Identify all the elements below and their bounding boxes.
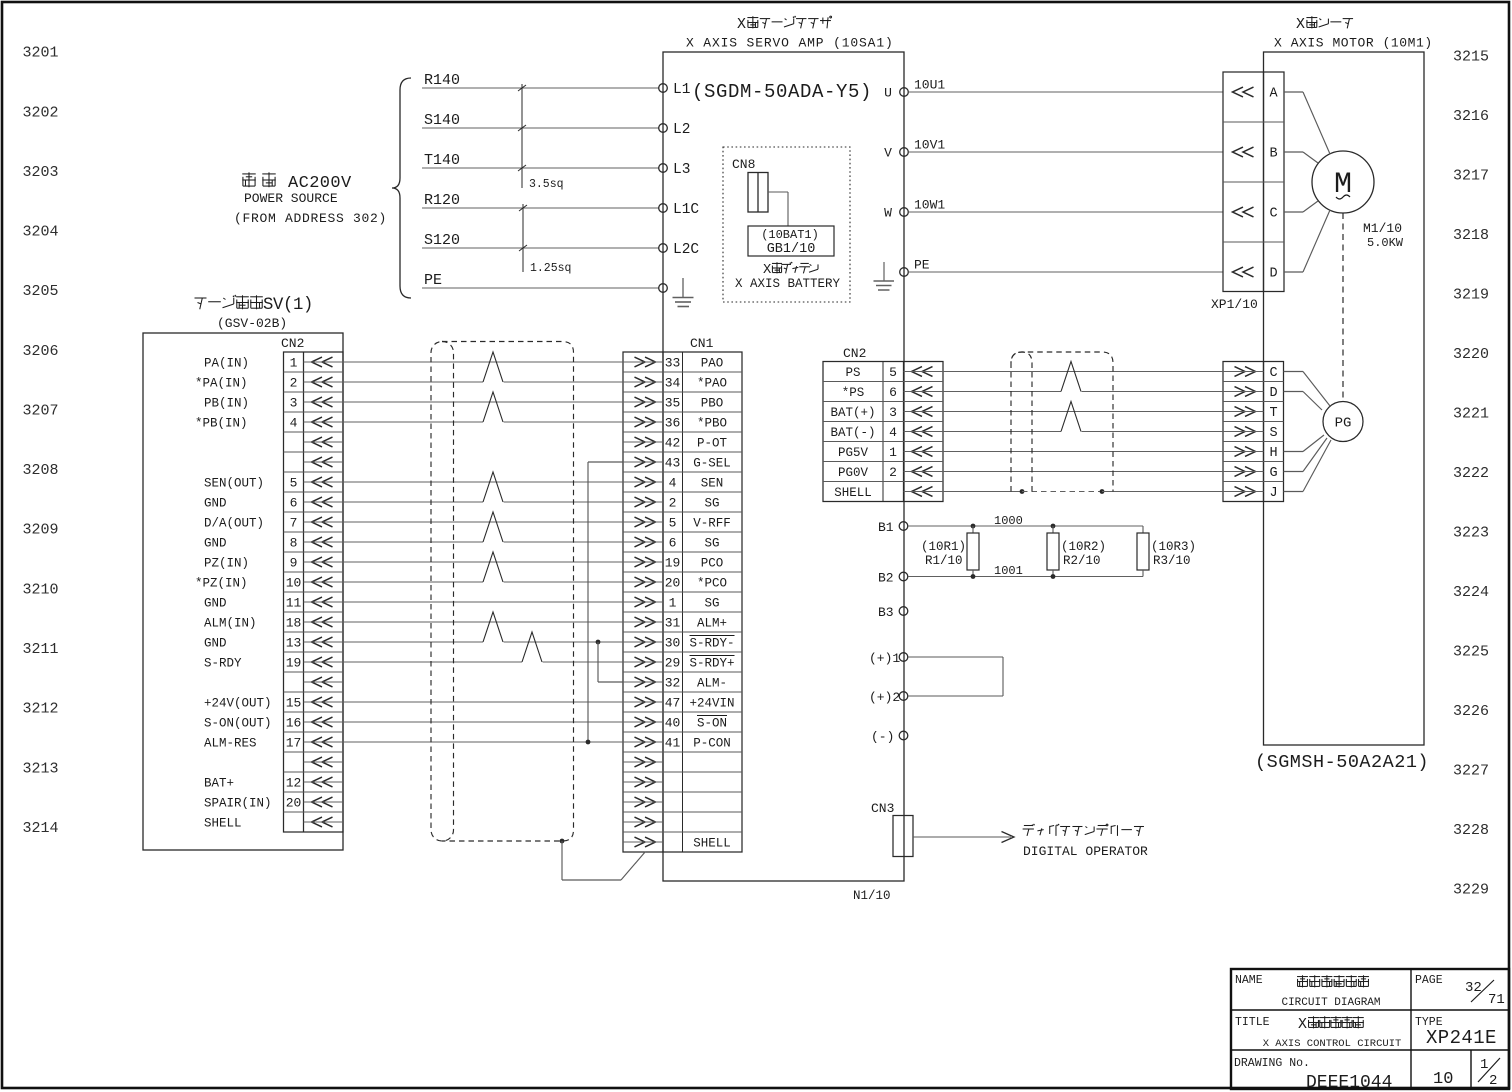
svg-text:4: 4: [290, 416, 298, 431]
svg-text:13: 13: [286, 636, 302, 651]
wire SHELL shield: [943, 489, 1223, 494]
wire PS: [943, 371, 1223, 373]
pin 4 SEN CN1: [623, 476, 723, 491]
pin 6 SG CN1: [623, 536, 720, 551]
title block 1/2 fraction: [1478, 1057, 1500, 1089]
svg-text:16: 16: [286, 716, 302, 731]
title block TYPE cell: [1415, 1016, 1497, 1049]
svg-text:3220: 3220: [1453, 346, 1489, 363]
label (SGDM-50ADA-Y5): [692, 81, 872, 103]
connector CN8: [732, 157, 768, 212]
pin 11 GND CN2 left: [204, 596, 343, 611]
battery GB1/10 (10BAT1): [748, 226, 834, 257]
svg-text:*PA(IN): *PA(IN): [195, 377, 248, 391]
svg-text:PAGE: PAGE: [1415, 974, 1443, 987]
svg-text:G: G: [1269, 466, 1277, 481]
pin 43 G-SEL CN1: [623, 456, 731, 471]
svg-text:3: 3: [290, 396, 298, 411]
pin 42 P-OT CN1: [623, 436, 727, 451]
svg-text:3210: 3210: [23, 581, 59, 598]
svg-text:R3/10: R3/10: [1153, 554, 1191, 568]
svg-text:42: 42: [665, 436, 681, 451]
svg-text:5.0KW: 5.0KW: [1367, 236, 1404, 250]
wire PE: [422, 272, 659, 289]
resistor R3/10: [1137, 526, 1196, 577]
wire row S-RDY: [343, 661, 623, 663]
svg-text:3221: 3221: [1453, 405, 1489, 422]
terminal (+)2: [869, 690, 908, 705]
terminal (+)1: [869, 651, 908, 666]
label X AXIS MOTOR (10M1): [1274, 36, 1433, 51]
svg-text:W: W: [884, 206, 892, 221]
svg-text:35: 35: [665, 396, 681, 411]
svg-text:3218: 3218: [1453, 227, 1489, 244]
pin 20 SPAIR(IN) CN2 left: [204, 796, 343, 811]
svg-text:X AXIS MOTOR (10M1): X AXIS MOTOR (10M1): [1274, 36, 1433, 51]
svg-text:4: 4: [889, 425, 897, 440]
terminal L2C on U1: [659, 242, 700, 258]
svg-text:3204: 3204: [23, 224, 59, 241]
svg-text:DIGITAL OPERATOR: DIGITAL OPERATOR: [1023, 844, 1148, 859]
label CN2 left: [281, 336, 304, 351]
pin 1 PG5V CN2 right: [838, 445, 943, 460]
svg-text:NAME: NAME: [1235, 974, 1263, 987]
pin 2 PG0V CN2 right: [838, 465, 943, 480]
label X axis motor (Japanese): [1296, 16, 1353, 33]
twisted pair symbol: [483, 352, 504, 383]
svg-text:*PS: *PS: [842, 386, 865, 400]
pin 2 *PA(IN) CN2 left: [195, 376, 343, 391]
svg-text:R1/10: R1/10: [925, 554, 963, 568]
pin (nc) spare CN2 left: [304, 757, 344, 767]
wire S140: [422, 112, 659, 129]
svg-text:3228: 3228: [1453, 822, 1489, 839]
node 1001 wire: [908, 564, 1143, 578]
svg-text:4: 4: [669, 476, 677, 491]
twisted pair symbol: [483, 392, 504, 423]
dashed shaft line motor to PG: [1342, 213, 1344, 401]
svg-text:10V1: 10V1: [914, 138, 945, 153]
pin B XP1/10 arrow: [1233, 147, 1278, 162]
svg-text:GB1/10: GB1/10: [767, 242, 816, 257]
pin C PG connector: [1223, 366, 1278, 381]
cable shield sheath right: [1011, 352, 1113, 492]
twisted pair symbol right: [1061, 362, 1082, 393]
twisted pair symbol: [483, 552, 504, 583]
svg-text:GND: GND: [204, 637, 227, 651]
svg-text:CIRCUIT DIAGRAM: CIRCUIT DIAGRAM: [1281, 997, 1380, 1009]
svg-text:M1/10: M1/10: [1363, 221, 1402, 236]
svg-text:BAT(+): BAT(+): [830, 406, 875, 420]
pin 41 P-CON CN1: [623, 736, 731, 751]
pin 16 S-ON(OUT) CN2 left: [204, 716, 343, 731]
left row labels 3201-3214: [23, 45, 59, 837]
wire row *PB(IN): [343, 421, 623, 423]
pin 5 PS CN2 right: [845, 365, 943, 380]
svg-text:D: D: [1269, 267, 1277, 282]
svg-text:ALM-: ALM-: [697, 677, 727, 691]
svg-text:D/A(OUT): D/A(OUT): [204, 517, 264, 531]
pin 47 +24VIN CN1: [623, 696, 735, 711]
svg-text:1.25sq: 1.25sq: [530, 262, 571, 275]
svg-text:CN1: CN1: [690, 336, 714, 351]
pin 1 PA(IN) CN2 left: [204, 356, 343, 371]
cable shield sheath left: [431, 342, 574, 842]
svg-text:71: 71: [1488, 992, 1505, 1008]
wire T140: [422, 152, 659, 169]
svg-text:CN8: CN8: [732, 157, 755, 172]
svg-text:BAT(-): BAT(-): [830, 426, 875, 440]
label X AXIS BATTERY: [735, 277, 841, 291]
svg-text:2: 2: [290, 376, 298, 391]
svg-text:S-ON(OUT): S-ON(OUT): [204, 717, 272, 731]
connector PG pins table: [1223, 362, 1284, 502]
svg-text:L3: L3: [673, 162, 690, 178]
pin G PG connector: [1223, 466, 1278, 481]
svg-text:3216: 3216: [1453, 108, 1489, 125]
wire ALM- branch: [596, 640, 623, 682]
svg-text:43: 43: [665, 456, 681, 471]
terminal L2 on U1: [659, 122, 691, 138]
svg-text:3206: 3206: [23, 343, 59, 360]
svg-text:3202: 3202: [23, 104, 59, 121]
pin (nc) spare CN1: [623, 757, 663, 767]
pin 36 *PBO CN1: [623, 416, 727, 431]
label DIGITAL OPERATOR: [1023, 844, 1148, 859]
svg-text:1: 1: [290, 356, 298, 371]
svg-text:2: 2: [669, 496, 677, 511]
svg-text:S140: S140: [424, 112, 460, 129]
svg-text:5: 5: [290, 476, 298, 491]
svg-text:ALM-RES: ALM-RES: [204, 737, 257, 751]
wire row GND: [343, 501, 623, 503]
svg-text:CN3: CN3: [871, 801, 894, 816]
svg-text:(+)1: (+)1: [869, 651, 900, 666]
svg-text:47: 47: [665, 696, 681, 711]
terminal B1: [878, 520, 908, 535]
label CN1: [690, 336, 714, 351]
terminal PE on U1: [659, 284, 668, 293]
svg-text:GND: GND: [204, 597, 227, 611]
wire row *PZ(IN): [343, 581, 623, 583]
svg-text:X: X: [1298, 1017, 1307, 1033]
svg-text:GND: GND: [204, 497, 227, 511]
svg-text:PG5V: PG5V: [838, 446, 869, 460]
pin C XP1/10 arrow: [1233, 207, 1278, 222]
svg-text:U: U: [884, 86, 892, 101]
svg-text:PA(IN): PA(IN): [204, 357, 249, 371]
pin 6 GND CN2 left: [204, 496, 343, 511]
pin D XP1/10 arrow: [1233, 267, 1278, 282]
svg-text:TITLE: TITLE: [1235, 1016, 1270, 1029]
svg-text:V: V: [884, 146, 892, 161]
label POWER SOURCE: [244, 191, 338, 206]
connector CN2 right table: [823, 362, 943, 502]
svg-text:6: 6: [290, 496, 298, 511]
label servo board SV(1) (Japanese): [195, 295, 314, 315]
svg-text:3222: 3222: [1453, 465, 1489, 482]
svg-text:SG: SG: [704, 497, 719, 511]
svg-text:1: 1: [669, 596, 677, 611]
pin 4 BAT(-) CN2 right: [830, 425, 943, 440]
svg-text:1: 1: [889, 445, 897, 460]
svg-text:2: 2: [1489, 1073, 1497, 1089]
svg-text:X: X: [763, 263, 772, 278]
svg-text:(10R2): (10R2): [1061, 540, 1106, 554]
svg-text:19: 19: [665, 556, 681, 571]
pin (nc) spare CN2 left: [304, 677, 344, 687]
pin (nc) spare CN2 left: [304, 457, 344, 467]
twisted pair symbol: [483, 612, 504, 643]
svg-text:H: H: [1269, 446, 1277, 461]
svg-text:30: 30: [665, 636, 681, 651]
wire PG0V: [943, 471, 1223, 473]
svg-text:PBO: PBO: [701, 397, 724, 411]
title block sheet number: [1433, 1070, 1453, 1089]
svg-text:3223: 3223: [1453, 524, 1489, 541]
wire row PZ(IN): [343, 561, 623, 563]
pin (nc) SHELL CN2 left: [204, 817, 343, 831]
jumper strap (+)1 to (+)2: [908, 657, 1003, 696]
svg-text:5: 5: [669, 516, 677, 531]
wire BAT(-): [943, 431, 1223, 433]
label XP1/10: [1211, 297, 1258, 312]
svg-text:3203: 3203: [23, 164, 59, 181]
pin 35 PBO CN1: [623, 396, 723, 411]
pin (shell) SHELL CN2 right: [834, 486, 943, 500]
wire row ALM-RES: [343, 741, 623, 743]
title block: [1231, 969, 1509, 1089]
pin 7 D/A(OUT) CN2 left: [204, 516, 343, 531]
svg-text:3219: 3219: [1453, 286, 1489, 303]
terminal L3 on U1: [659, 162, 691, 178]
pin J PG connector: [1223, 486, 1278, 501]
svg-text:J: J: [1269, 486, 1277, 501]
svg-text:3227: 3227: [1453, 762, 1489, 779]
svg-text:32: 32: [665, 676, 681, 691]
pin 1 SG CN1: [623, 596, 720, 611]
label X axis battery (Japanese): [763, 262, 818, 278]
wire row +24V(OUT): [343, 701, 623, 703]
svg-text:L1: L1: [673, 82, 690, 98]
svg-text:1000: 1000: [994, 514, 1023, 528]
svg-text:POWER SOURCE: POWER SOURCE: [244, 191, 338, 206]
svg-text:): ): [303, 296, 313, 315]
svg-text:34: 34: [665, 376, 681, 391]
svg-text:5: 5: [889, 365, 897, 380]
svg-text:(SGMSH-50A2A21): (SGMSH-50A2A21): [1255, 752, 1429, 773]
wire 10U1: [909, 78, 1224, 93]
svg-text:CN2: CN2: [843, 346, 866, 361]
svg-text:20: 20: [286, 796, 302, 811]
pin 9 PZ(IN) CN2 left: [204, 556, 343, 571]
pin A XP1/10 arrow: [1233, 87, 1279, 102]
battery dashed enclosure: [723, 147, 850, 302]
wire CN8 to battery: [768, 192, 788, 226]
wire S120: [422, 232, 659, 249]
svg-text:(10BAT1): (10BAT1): [761, 228, 819, 242]
svg-text:D: D: [1269, 386, 1277, 401]
svg-text:S-RDY+: S-RDY+: [689, 657, 734, 671]
svg-text:(FROM ADDRESS 302): (FROM ADDRESS 302): [234, 211, 387, 226]
svg-text:SPAIR(IN): SPAIR(IN): [204, 797, 272, 811]
pin (nc) spare CN1: [623, 777, 663, 787]
svg-text:31: 31: [665, 616, 681, 631]
terminal B2: [878, 571, 908, 586]
svg-text:18: 18: [286, 616, 302, 631]
svg-text:PG: PG: [1335, 416, 1352, 432]
label X axis servo amp (Japanese): [737, 16, 832, 33]
wire 10V1: [909, 138, 1224, 153]
svg-text:X AXIS SERVO AMP (10SA1): X AXIS SERVO AMP (10SA1): [686, 36, 894, 51]
svg-text:S120: S120: [424, 232, 460, 249]
label FROM ADDRESS 302: [234, 211, 387, 226]
svg-text:PE: PE: [914, 258, 930, 273]
svg-text:19: 19: [286, 656, 302, 671]
arrow to digital operator: [913, 832, 1014, 843]
wire row PA(IN): [343, 361, 623, 363]
svg-text:XP241E: XP241E: [1426, 1027, 1497, 1049]
svg-text:N1/10: N1/10: [853, 889, 891, 903]
right row labels 3215-3229: [1453, 48, 1489, 898]
svg-text:3: 3: [889, 405, 897, 420]
svg-text:3.5sq: 3.5sq: [529, 178, 564, 191]
twisted pair symbol: [483, 472, 504, 503]
svg-text:(10R1): (10R1): [921, 540, 966, 554]
motor M1/10 circle: [1312, 151, 1374, 213]
node 1000 wire: [908, 514, 1143, 528]
svg-text:3208: 3208: [23, 462, 59, 479]
wire gauge marker 3.5sq: [518, 84, 564, 191]
pin (nc) spare CN2 left: [304, 437, 344, 447]
terminal B3: [878, 605, 908, 620]
wire row D/A(OUT): [343, 521, 623, 523]
pin 19 PCO CN1: [623, 556, 723, 571]
power source brace: [392, 78, 411, 298]
motor box 10M1: [1264, 52, 1425, 745]
svg-text:10W1: 10W1: [914, 198, 945, 213]
svg-text:P-CON: P-CON: [693, 737, 731, 751]
svg-text:1: 1: [1480, 1057, 1488, 1073]
title block PAGE cell: [1415, 974, 1505, 1008]
pin 18 ALM(IN) CN2 left: [204, 616, 343, 631]
svg-text:SG: SG: [704, 537, 719, 551]
svg-text:40: 40: [665, 716, 681, 731]
pin 33 PAO CN1: [623, 356, 723, 371]
label digital operator (Japanese): [1023, 824, 1144, 836]
title block NAME cell: [1235, 974, 1381, 1009]
svg-text:(-): (-): [871, 730, 894, 745]
svg-text:11: 11: [286, 596, 302, 611]
wire row SEN(OUT): [343, 481, 623, 483]
svg-text:3213: 3213: [23, 760, 59, 777]
svg-text:36: 36: [665, 416, 681, 431]
wire row GND: [343, 641, 623, 643]
svg-text:20: 20: [665, 576, 681, 591]
svg-text:L1C: L1C: [673, 202, 699, 218]
svg-text:SHELL: SHELL: [204, 817, 242, 831]
svg-text:DRAWING No.: DRAWING No.: [1234, 1057, 1310, 1070]
svg-text:*PBO: *PBO: [697, 417, 727, 431]
svg-text:(: (: [283, 296, 293, 315]
svg-text:X AXIS CONTROL CIRCUIT: X AXIS CONTROL CIRCUIT: [1263, 1038, 1402, 1050]
svg-text:3224: 3224: [1453, 584, 1489, 601]
connector XP1/10: [1223, 72, 1284, 292]
wire G-SEL branch: [586, 462, 623, 744]
pin T PG connector: [1223, 406, 1278, 421]
svg-text:G-SEL: G-SEL: [693, 457, 731, 471]
terminal W output on U1: [884, 206, 908, 221]
svg-text:3217: 3217: [1453, 167, 1489, 184]
svg-text:ALM(IN): ALM(IN): [204, 617, 257, 631]
svg-text:3212: 3212: [23, 701, 59, 718]
terminal V output on U1: [884, 146, 908, 161]
twisted pair symbol: [483, 512, 504, 543]
svg-text:3207: 3207: [23, 403, 59, 420]
pin 32 ALM- CN1: [623, 676, 727, 691]
svg-text:(SGDM-50ADA-Y5): (SGDM-50ADA-Y5): [692, 81, 872, 103]
pin 29 S-RDY+ CN1: [623, 656, 735, 671]
svg-text:ALM+: ALM+: [697, 617, 727, 631]
svg-text:3201: 3201: [23, 45, 59, 62]
svg-text:3225: 3225: [1453, 643, 1489, 660]
terminal PE output on U1: [900, 268, 909, 277]
svg-text:*PB(IN): *PB(IN): [195, 417, 248, 431]
svg-text:PB(IN): PB(IN): [204, 397, 249, 411]
svg-text:+24V(OUT): +24V(OUT): [204, 697, 272, 711]
connector CN3: [871, 801, 913, 857]
svg-text:PS: PS: [845, 366, 860, 380]
svg-text:6: 6: [889, 385, 897, 400]
label CN2 right: [843, 346, 866, 361]
label (GSV-02B): [217, 316, 287, 331]
title block DRAWING No cell: [1234, 1057, 1392, 1092]
wire row GND: [343, 541, 623, 543]
label N1/10: [853, 889, 891, 903]
twisted pair symbol offset: [522, 632, 543, 663]
svg-text:3229: 3229: [1453, 881, 1489, 898]
svg-text:S-RDY-: S-RDY-: [689, 637, 734, 651]
resistor R1/10: [921, 524, 979, 579]
svg-text:1001: 1001: [994, 564, 1023, 578]
svg-text:B2: B2: [878, 571, 894, 586]
label M1/10 5.0KW: [1363, 221, 1404, 250]
encoder PG circle: [1323, 402, 1363, 442]
svg-text:+24VIN: +24VIN: [689, 697, 734, 711]
resistor R2/10: [1047, 524, 1106, 579]
ground symbol at U1 PE output: [874, 262, 895, 290]
terminal (-): [871, 730, 908, 745]
svg-text:X AXIS BATTERY: X AXIS BATTERY: [735, 277, 841, 291]
pin 10 *PZ(IN) CN2 left: [195, 576, 343, 591]
pin D PG connector: [1223, 386, 1278, 401]
pin 8 GND CN2 left: [204, 536, 343, 551]
pin 13 GND CN2 left: [204, 636, 343, 651]
pin 31 ALM+ CN1: [623, 616, 727, 631]
pin 6 *PS CN2 right: [842, 385, 943, 400]
wire row GND: [343, 601, 623, 603]
label (SGMSH-50A2A21): [1255, 752, 1429, 773]
pin 12 BAT+ CN2 left: [204, 776, 343, 791]
wire row *PA(IN): [343, 381, 623, 383]
svg-text:S-ON: S-ON: [697, 717, 727, 731]
svg-text:*PZ(IN): *PZ(IN): [195, 577, 248, 591]
svg-text:(+)2: (+)2: [869, 690, 900, 705]
svg-text:T140: T140: [424, 152, 460, 169]
svg-text:GND: GND: [204, 537, 227, 551]
pin 34 *PAO CN1: [623, 376, 727, 391]
svg-text:R120: R120: [424, 192, 460, 209]
